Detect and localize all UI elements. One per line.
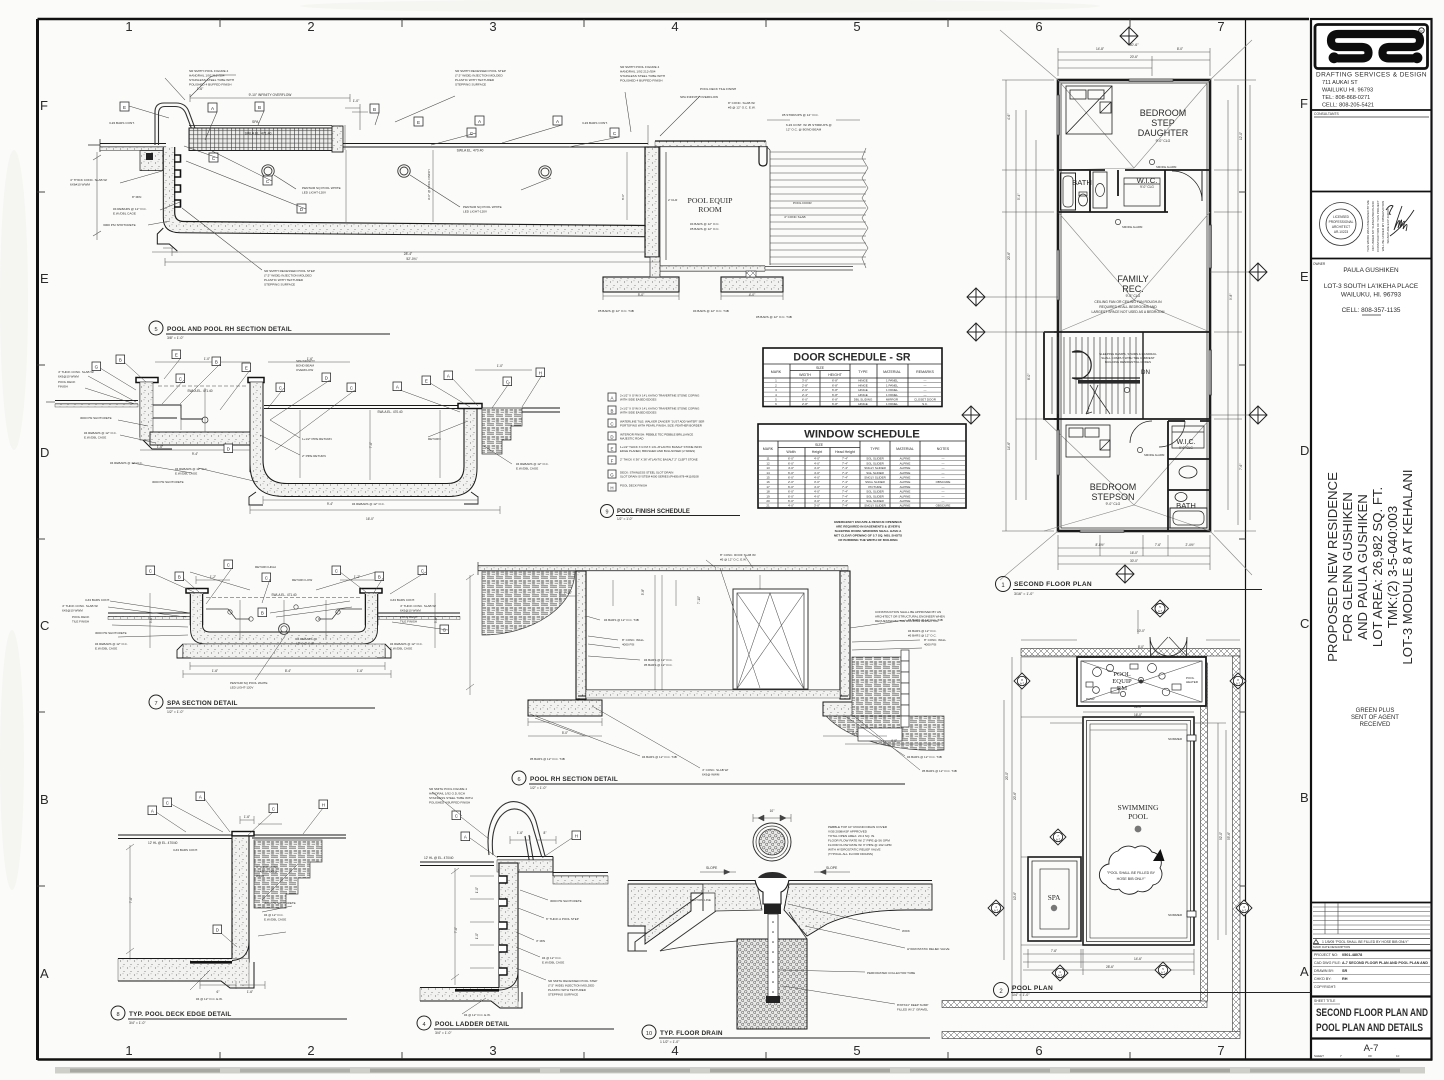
svg-text:LOT AREA: 26,982 SQ. FT.: LOT AREA: 26,982 SQ. FT. [1370, 487, 1385, 647]
svg-text:8" CONC. ROOF SLAB W/: 8" CONC. ROOF SLAB W/ [720, 553, 756, 557]
svg-text:A-7: A-7 [1020, 682, 1025, 686]
svg-text:PENTAIR SQ POOL WHITE: PENTAIR SQ POOL WHITE [230, 681, 268, 685]
spa waterline dashed [158, 385, 248, 387]
svg-text:4" THICK CONC. SLAB W/: 4" THICK CONC. SLAB W/ [62, 604, 98, 608]
left wall [576, 571, 586, 699]
svg-text:LICENSED: LICENSED [1333, 215, 1350, 219]
svg-text:BATH: BATH [1072, 178, 1092, 187]
svg-text:4'-0": 4'-0" [814, 461, 820, 465]
svg-text:4" THICK CONC. SLAB W/: 4" THICK CONC. SLAB W/ [58, 370, 94, 374]
svg-text:6'-8": 6'-8" [832, 383, 838, 387]
svg-text:A: A [1300, 964, 1309, 979]
svg-text:STAINLESS STEEL TUBE WITH: STAINLESS STEEL TUBE WITH [429, 796, 473, 800]
grid row letters [40, 96, 1309, 981]
svg-text:1'-0": 1'-0" [353, 99, 360, 103]
vanity top [1093, 172, 1107, 208]
svg-text:#4 BARS @ 12" O.C. T4B: #4 BARS @ 12" O.C. T4B [642, 755, 677, 759]
svg-text:3: 3 [489, 1043, 496, 1058]
svg-text:3000 PSI SHOTCRETE: 3000 PSI SHOTCRETE [264, 901, 296, 905]
svg-text:#5 BARS @ 12" O.C. T4B: #5 BARS @ 12" O.C. T4B [530, 757, 565, 761]
interior dim verticals [140, 362, 532, 514]
svg-text:2'-0": 2'-0" [788, 480, 794, 484]
svg-text:POOL FINISH SCHEDULE: POOL FINISH SCHEDULE [617, 509, 690, 515]
svg-text:POOL DECK TILE FINISH: POOL DECK TILE FINISH [700, 87, 736, 91]
svg-text:GREEN PLUS: GREEN PLUS [1356, 708, 1395, 714]
svg-text:18: 18 [766, 490, 770, 494]
svg-text:C: C [610, 422, 613, 427]
svg-text:STEP: STEP [1151, 118, 1175, 128]
svg-text:4'-6": 4'-6" [1007, 114, 1011, 120]
svg-text:F: F [611, 459, 614, 464]
svg-text:OVERFLOW: OVERFLOW [296, 368, 313, 372]
svg-text:4000 PSI: 4000 PSI [622, 643, 635, 647]
svg-text:6: 6 [1035, 1043, 1042, 1058]
grid half ticks [220, 19, 1130, 1059]
svg-text:5'-4": 5'-4" [1017, 194, 1021, 200]
svg-text:SR SMITH POOL FIGURE 4: SR SMITH POOL FIGURE 4 [189, 69, 229, 73]
svg-text:SLEEPING ROOM. WINDOWS SHALL H: SLEEPING ROOM. WINDOWS SHALL HAVE A [835, 529, 903, 533]
svg-text:7'-10": 7'-10" [564, 591, 572, 595]
svg-text:9'-0" @ POOL FINISH: 9'-0" @ POOL FINISH [427, 169, 431, 200]
svg-text:---: --- [942, 494, 945, 498]
spa [1028, 857, 1081, 941]
svg-text:SLOPE: SLOPE [706, 866, 718, 870]
stepson suite right rooms [1168, 421, 1210, 531]
svg-text:POLISHED 4 BUFFED FINISH: POLISHED 4 BUFFED FINISH [189, 83, 231, 87]
svg-text:---: --- [942, 457, 945, 461]
svg-text:2'-6": 2'-6" [802, 388, 808, 392]
svg-text:AND PAULA GUSHIKEN: AND PAULA GUSHIKEN [1355, 494, 1370, 640]
leader lines [120, 75, 700, 270]
svg-text:7'-4": 7'-4" [842, 476, 848, 480]
svg-text:E.W./DBL CAGE: E.W./DBL CAGE [175, 472, 197, 476]
svg-text:W.I.C.: W.I.C. [1176, 439, 1195, 446]
svg-text:5: 5 [853, 19, 860, 34]
svg-text:7'-6": 7'-6" [1155, 543, 1161, 547]
bottom scan bleed [55, 1067, 1425, 1074]
svg-text:WILL BE UNDER MY OBSERVATION: WILL BE UNDER MY OBSERVATION [1381, 201, 1385, 252]
svg-text:RETURN HIGH: RETURN HIGH [255, 565, 276, 569]
svg-text:A: A [40, 966, 49, 981]
svg-text:HINGE: HINGE [858, 393, 868, 397]
svg-text:DBL SLIDING: DBL SLIDING [854, 398, 873, 402]
svg-text:6'-8": 6'-8" [832, 393, 838, 397]
bed daughter [1066, 86, 1112, 134]
svg-text:ALPINE: ALPINE [900, 471, 911, 475]
title [149, 695, 163, 709]
svg-text:#4 REBARS @ 12" O.C.: #4 REBARS @ 12" O.C. [84, 431, 117, 435]
svg-text:16'-0": 16'-0" [1130, 551, 1138, 555]
svg-text:WINDOW SCHEDULE: WINDOW SCHEDULE [804, 429, 920, 441]
svg-text:SNGLY SLIDER: SNGLY SLIDER [864, 466, 886, 470]
svg-text:POOL RH SECTION DETAIL: POOL RH SECTION DETAIL [530, 776, 618, 783]
svg-text:(7.5" WIDE) INJECTION MOLDED: (7.5" WIDE) INJECTION MOLDED [548, 984, 595, 988]
svg-text:#4 REBARS @ 12" O.C.: #4 REBARS @ 12" O.C. [95, 642, 128, 646]
svg-text:1'-6": 1'-6" [244, 815, 250, 819]
svg-text:STEPPING SURFACE: STEPPING SURFACE [264, 283, 295, 287]
svg-text:SWLA EL. 471.40: SWLA EL. 471.40 [271, 593, 296, 597]
svg-text:8'-0": 8'-0" [1138, 645, 1144, 649]
svg-text:7'-4": 7'-4" [842, 480, 848, 484]
svg-text:9'-4": 9'-4" [327, 502, 333, 506]
svg-text:SWLA EL. 471.40: SWLA EL. 471.40 [245, 132, 272, 136]
left deck [55, 401, 138, 405]
svg-text:3-#4 BARS CONT.: 3-#4 BARS CONT. [582, 121, 608, 125]
svg-text:FOR GLENN GUSHIKEN: FOR GLENN GUSHIKEN [1340, 492, 1355, 641]
wall step notches [174, 155, 181, 207]
svg-text:---: --- [942, 499, 945, 503]
svg-text:#5 BARS @ 12" O.C. T4B: #5 BARS @ 12" O.C. T4B [756, 315, 792, 319]
svg-text:19: 19 [766, 494, 770, 498]
svg-text:D: D [1300, 443, 1309, 458]
svg-text:E: E [425, 379, 428, 384]
pool basin [257, 408, 471, 490]
svg-text:4000 PSI: 4000 PSI [924, 643, 937, 647]
svg-text:3000 PSI SHOTCRETE: 3000 PSI SHOTCRETE [80, 416, 112, 420]
svg-text:711 AUKAI ST: 711 AUKAI ST [1322, 80, 1358, 86]
svg-text:3000 PSI SHOTCRETE: 3000 PSI SHOTCRETE [152, 480, 184, 484]
svg-text:4" THICK CONC. SLAB W/: 4" THICK CONC. SLAB W/ [70, 178, 107, 182]
svg-text:MATERIAL: MATERIAL [896, 447, 914, 451]
wall [232, 836, 249, 962]
svg-text:#4 BARS @ 12" O.C. T4B: #4 BARS @ 12" O.C. T4B [693, 309, 729, 313]
svg-text:MAJESTIC ROAD: MAJESTIC ROAD [620, 437, 643, 441]
svg-text:1 PANEL: 1 PANEL [886, 379, 898, 383]
svg-text:MARK: MARK [771, 370, 782, 374]
svg-text:SHEET TITLE: SHEET TITLE [1314, 999, 1336, 1003]
svg-text:4: 4 [422, 1022, 425, 1028]
basin walls band [197, 594, 372, 638]
svg-text:A: A [447, 374, 450, 379]
svg-text:E: E [417, 120, 420, 125]
slope labels [700, 870, 736, 875]
svg-text:3'-6": 3'-6" [149, 617, 153, 623]
right hatch block [482, 408, 522, 454]
svg-text:---: --- [924, 393, 927, 397]
svg-text:SNGLY SLIDER: SNGLY SLIDER [864, 504, 886, 508]
leaders + annotations [108, 568, 448, 680]
svg-text:6'-0": 6'-0" [788, 485, 794, 489]
svg-text:---: --- [924, 388, 927, 392]
svg-text:B: B [378, 575, 381, 580]
svg-text:THIS WORK WAS PREPARED BY ME: THIS WORK WAS PREPARED BY ME [1366, 200, 1370, 252]
svg-text:C: C [166, 801, 169, 806]
svg-text:---: --- [942, 466, 945, 470]
svg-text:12' HL @ EL. 470/40: 12' HL @ EL. 470/40 [148, 841, 178, 845]
svg-text:9'-4": 9'-4" [192, 452, 198, 456]
svg-text:8" CONC. WALL: 8" CONC. WALL [924, 638, 946, 642]
svg-text:SWLA EL. 470.40: SWLA EL. 470.40 [377, 410, 402, 414]
svg-text:CELL: 808-205-5421: CELL: 808-205-5421 [1322, 103, 1374, 109]
svg-text:SIZE: SIZE [816, 366, 825, 370]
svg-text:FLOOR FLOW RATE W/ 2" PIPE @ 5: FLOOR FLOW RATE W/ 2" PIPE @ 56 GPM [828, 839, 890, 843]
svg-text:MATERIAL: MATERIAL [883, 370, 901, 374]
svg-text:6'-0": 6'-0" [788, 471, 794, 475]
svg-text:ALPINE: ALPINE [900, 490, 911, 494]
svg-text:TMK:(2) 3-5-040:003: TMK:(2) 3-5-040:003 [1385, 506, 1400, 628]
svg-text:30'-0": 30'-0" [1130, 559, 1138, 563]
lanai deck boards right [770, 148, 868, 268]
svg-text:E.W./DBL CAGE: E.W./DBL CAGE [542, 961, 564, 965]
note block [828, 825, 892, 856]
svg-text:EMERGENCY ESCAPE & RESCUE OPEN: EMERGENCY ESCAPE & RESCUE OPENINGS [834, 520, 902, 524]
signature area [1386, 206, 1414, 237]
svg-text:---: --- [942, 485, 945, 489]
svg-text:8'-8½": 8'-8½" [1095, 543, 1104, 547]
svg-text:9'-0" CLG: 9'-0" CLG [1156, 139, 1171, 143]
spa interior bench steps [153, 405, 203, 419]
svg-text:6: 6 [517, 777, 520, 783]
svg-text:SPA: SPA [252, 120, 259, 124]
svg-text:3'-0": 3'-0" [802, 379, 808, 383]
svg-text:LOT-3 MODULE 8 AT KEHALANI: LOT-3 MODULE 8 AT KEHALANI [1400, 469, 1415, 664]
pool left wall + floor band [169, 147, 647, 231]
svg-text:C: C [335, 569, 338, 574]
svg-text:ARE REQUIRED IN BASEMENTS & (E: ARE REQUIRED IN BASEMENTS & (EVERY) [836, 525, 900, 529]
svg-text:8" CONC. WALL: 8" CONC. WALL [622, 638, 644, 642]
svg-text:#5 @ 12" O.C. E.W.: #5 @ 12" O.C. E.W. [720, 558, 747, 562]
tile strip [901, 650, 909, 727]
svg-text:DN: DN [1141, 369, 1150, 376]
svg-text:RM: RM [1117, 685, 1127, 692]
svg-text:7'-4": 7'-4" [842, 457, 848, 461]
svg-text:SWIMMING: SWIMMING [1118, 803, 1159, 812]
svg-text:11: 11 [766, 457, 769, 461]
skimmers [1187, 735, 1196, 741]
svg-text:SHEET: SHEET [1314, 1054, 1324, 1058]
svg-text:OBSCURE: OBSCURE [936, 480, 951, 484]
door [733, 589, 808, 689]
toilet top [1079, 194, 1088, 206]
svg-text:7'-4": 7'-4" [842, 466, 848, 470]
boxed tags [146, 560, 449, 634]
svg-text:7'-4": 7'-4" [842, 494, 848, 498]
svg-text:6'-0": 6'-0" [788, 494, 794, 498]
svg-text:6'-0": 6'-0" [788, 457, 794, 461]
svg-text:C: C [179, 377, 182, 382]
svg-text:7'-6": 7'-6" [1239, 464, 1243, 470]
svg-text:#5 BARS @ 12" O.C. T4B: #5 BARS @ 12" O.C. T4B [922, 769, 957, 773]
svg-text:4" THICK CONC.: 4" THICK CONC. [256, 865, 279, 869]
svg-text:NET CLEAR OPENING OF 5.7 SQ. M: NET CLEAR OPENING OF 5.7 SQ. MSL SHOTS [834, 534, 902, 538]
svg-text:F: F [40, 98, 48, 113]
svg-text:ALPINE: ALPINE [900, 485, 911, 489]
project info [1311, 950, 1432, 952]
svg-text:PEBBLE TOP 10" ROUND DRAIN COV: PEBBLE TOP 10" ROUND DRAIN COVER [828, 825, 888, 829]
svg-text:POOL DECK: POOL DECK [58, 380, 75, 384]
svg-text:SWLA EL. 470.40: SWLA EL. 470.40 [457, 149, 484, 153]
svg-text:A-7: A-7 [1236, 682, 1241, 686]
svg-text:OF BURIDING THE WIDTH OF BUIL: OF BURIDING THE WIDTH OF BUILDING [838, 538, 898, 542]
svg-text:B: B [1300, 790, 1309, 805]
svg-text:HANDRAIL 1/92 O.D./SCH: HANDRAIL 1/92 O.D./SCH [429, 792, 465, 796]
svg-text:15: 15 [766, 476, 770, 480]
svg-text:E: E [123, 105, 126, 110]
svg-text:#5 BARS @ 12" O.C.: #5 BARS @ 12" O.C. [690, 227, 719, 231]
svg-text:POOL: POOL [1113, 671, 1130, 678]
svg-text:1 1/2" = 1'-0": 1 1/2" = 1'-0" [660, 1040, 680, 1044]
svg-text:SGL SLIDER: SGL SLIDER [866, 494, 884, 498]
svg-text:POOL LADDER DETAIL: POOL LADDER DETAIL [435, 1021, 509, 1028]
svg-text:3000 PSI SHOTCRETE: 3000 PSI SHOTCRETE [95, 631, 127, 635]
stamp circles [1320, 203, 1363, 246]
svg-text:A: A [151, 809, 154, 814]
svg-text:6" THICK A POOL STEP: 6" THICK A POOL STEP [546, 917, 579, 921]
svg-text:5'-0": 5'-0" [638, 293, 645, 297]
svg-text:BEDROOM: BEDROOM [1090, 482, 1137, 492]
svg-text:1'-0": 1'-0" [475, 887, 479, 893]
svg-text:A-7: A-7 [1056, 838, 1061, 842]
handrail [488, 802, 545, 856]
svg-text:3-#4 BARS CONT.: 3-#4 BARS CONT. [85, 598, 110, 602]
svg-text:Width: Width [786, 450, 795, 454]
room labels [1072, 108, 1196, 510]
door schedule [763, 348, 942, 407]
svg-text:1 PANEL: 1 PANEL [886, 383, 898, 387]
stair handrail [1072, 351, 1140, 379]
svg-text:E: E [40, 271, 49, 286]
svg-text:20'-0": 20'-0" [1005, 772, 1009, 780]
svg-text:2" PIPE RETURN: 2" PIPE RETURN [302, 454, 326, 458]
svg-text:TOTAL OPEN AREA: 20.4 SQ. IN.: TOTAL OPEN AREA: 20.4 SQ. IN. [828, 834, 875, 838]
svg-text:8'-4": 8'-4" [285, 669, 291, 673]
svg-text:CONSTRUCTION SHALL BE APPROVED: CONSTRUCTION SHALL BE APPROVED BY AN [875, 610, 941, 614]
svg-text:A-7 SECOND FLOOR PLAN AND POOL: A-7 SECOND FLOOR PLAN AND POOL PLAN AND [1342, 961, 1428, 965]
svg-text:F: F [1300, 96, 1308, 111]
svg-text:SR SMITH RECESSED POOL STEP: SR SMITH RECESSED POOL STEP [455, 69, 506, 73]
svg-text:9'-0" CLG: 9'-0" CLG [1140, 185, 1154, 189]
right wall [840, 571, 850, 699]
svg-text:1'-6": 1'-6" [247, 990, 253, 994]
svg-text:PENTAIR SQ POOL WHITE: PENTAIR SQ POOL WHITE [463, 205, 502, 209]
svg-text:TILE FINISH: TILE FINISH [400, 620, 417, 624]
svg-text:ALPINE: ALPINE [900, 480, 911, 484]
svg-text:STAINLESS STEEL TUBE WITH: STAINLESS STEEL TUBE WITH [189, 78, 234, 82]
tags [452, 811, 581, 841]
svg-text:13: 13 [766, 466, 770, 470]
svg-text:B: B [261, 611, 264, 616]
footing tabs [249, 492, 478, 505]
svg-text:PICTURE: PICTURE [868, 485, 881, 489]
svg-text:ROOM: ROOM [698, 205, 721, 214]
svg-text:1 PANEL: 1 PANEL [886, 402, 898, 406]
svg-text:3/8" = 1'-0": 3/8" = 1'-0" [167, 336, 184, 340]
svg-text:B: B [40, 792, 49, 807]
svg-text:D: D [216, 928, 219, 933]
svg-text:OWNER: OWNER [1313, 262, 1326, 266]
smoke alarms [1115, 159, 1154, 452]
svg-text:4'-0": 4'-0" [891, 739, 897, 743]
svg-text:HINGE: HINGE [858, 379, 868, 383]
svg-text:7'-0": 7'-0" [454, 927, 458, 933]
svg-text:MARK: MARK [763, 447, 774, 451]
svg-text:1'-6": 1'-6" [157, 445, 163, 449]
svg-text:20'-6": 20'-6" [1007, 252, 1011, 260]
svg-text:E: E [1300, 269, 1309, 284]
svg-text:6X6@10 WWM: 6X6@10 WWM [58, 375, 79, 379]
leaders/annotations [530, 556, 922, 770]
svg-text:4: 4 [671, 1043, 678, 1058]
svg-text:PROJECT NO:: PROJECT NO: [1314, 953, 1338, 957]
walkway hatched bands [942, 649, 1240, 1039]
svg-text:7'-4": 7'-4" [842, 490, 848, 494]
svg-text:STEPSON: STEPSON [1091, 492, 1134, 502]
svg-text:B: B [178, 575, 181, 580]
svg-text:SMOKE ALARM: SMOKE ALARM [1122, 225, 1143, 229]
svg-text:LED LIGHT-120V: LED LIGHT-120V [230, 686, 253, 690]
svg-text:PUMP: PUMP [1086, 697, 1095, 701]
bedroom stepson bed [1066, 425, 1110, 457]
wall right of equip room (door) [766, 146, 770, 265]
svg-text:#4 REBARS @ 12" O.C.: #4 REBARS @ 12" O.C. [110, 461, 143, 465]
svg-text:B: B [373, 107, 376, 112]
svg-text:#4 BARS @ 12" O.C.: #4 BARS @ 12" O.C. [690, 222, 719, 226]
svg-text:10'-6": 10'-6" [1013, 892, 1017, 900]
svg-text:CONSULTANTS: CONSULTANTS [1314, 112, 1339, 116]
svg-text:POLISHED 4 BUFFED FINISH: POLISHED 4 BUFFED FINISH [429, 801, 470, 805]
svg-text:SR: SR [1342, 969, 1348, 973]
left deck [108, 613, 190, 617]
svg-text:18'-0": 18'-0" [1134, 705, 1142, 709]
svg-text:RETURN LOW: RETURN LOW [292, 578, 312, 582]
svg-text:SIZE: SIZE [815, 443, 824, 447]
section markers [988, 600, 1252, 981]
svg-text:21: 21 [766, 504, 770, 508]
svg-text:7'-4": 7'-4" [842, 504, 848, 508]
revision table [1311, 902, 1432, 904]
svg-text:#4 BARS @ 12" O.C.: #4 BARS @ 12" O.C. [908, 629, 937, 633]
svg-text:CELL: 808-357-1135: CELL: 808-357-1135 [1342, 307, 1401, 314]
svg-text:12" O.C. @ BOND BEAM: 12" O.C. @ BOND BEAM [786, 128, 822, 132]
interior dim verticals [346, 150, 627, 222]
spa left wall [136, 378, 158, 383]
svg-text:2'-4½": 2'-4½" [1185, 543, 1194, 547]
svg-text:G: G [443, 628, 447, 633]
svg-text:SGL SLIDER: SGL SLIDER [866, 490, 884, 494]
boxed tags [92, 350, 545, 453]
svg-text:E.W./DBL CAGE: E.W./DBL CAGE [516, 467, 538, 471]
svg-text:16'-0": 16'-0" [1134, 713, 1142, 717]
svg-text:1 1/5/05 "POOL SHALL BE FILL: 1 1/5/05 "POOL SHALL BE FILLED BY HOSE B… [1322, 940, 1409, 944]
svg-text:16'-0": 16'-0" [366, 517, 374, 521]
svg-text:HINGE: HINGE [858, 402, 868, 406]
svg-text:28'-4": 28'-4" [404, 252, 413, 256]
svg-text:A-7: A-7 [1364, 1043, 1379, 1054]
equip rm door butterfly [1150, 637, 1187, 656]
svg-text:6X6@10 WWM: 6X6@10 WWM [62, 609, 83, 613]
grid column numbers top [125, 19, 1224, 1058]
dim texts tiny [1095, 43, 1194, 563]
svg-text:#4 REBARS @ 12" O.C.: #4 REBARS @ 12" O.C. [390, 642, 423, 646]
vertical project text [1325, 469, 1415, 664]
svg-text:1 PANEL: 1 PANEL [886, 393, 898, 397]
svg-text:12: 12 [766, 461, 770, 465]
svg-text:TILE FINISH: TILE FINISH [72, 620, 89, 624]
svg-text:2' CLR: 2' CLR [668, 198, 678, 202]
svg-text:52'-0": 52'-0" [1219, 832, 1223, 840]
svg-text:#4 REBARS @ 12" O.C.: #4 REBARS @ 12" O.C. [113, 207, 147, 211]
svg-text:E: E [175, 353, 178, 358]
deck right [232, 832, 346, 838]
svg-text:1'-6": 1'-6" [357, 669, 363, 673]
svg-text:4'-0": 4'-0" [814, 494, 820, 498]
svg-text:HANDRAIL 1/92 212-/504: HANDRAIL 1/92 212-/504 [189, 74, 225, 78]
pool waterline [264, 406, 464, 409]
svg-text:"POOL SHALL BE FILLED BY: "POOL SHALL BE FILLED BY [1107, 871, 1156, 875]
svg-text:5: 5 [853, 1043, 860, 1058]
title [149, 321, 163, 335]
svg-text:B: B [119, 358, 122, 363]
